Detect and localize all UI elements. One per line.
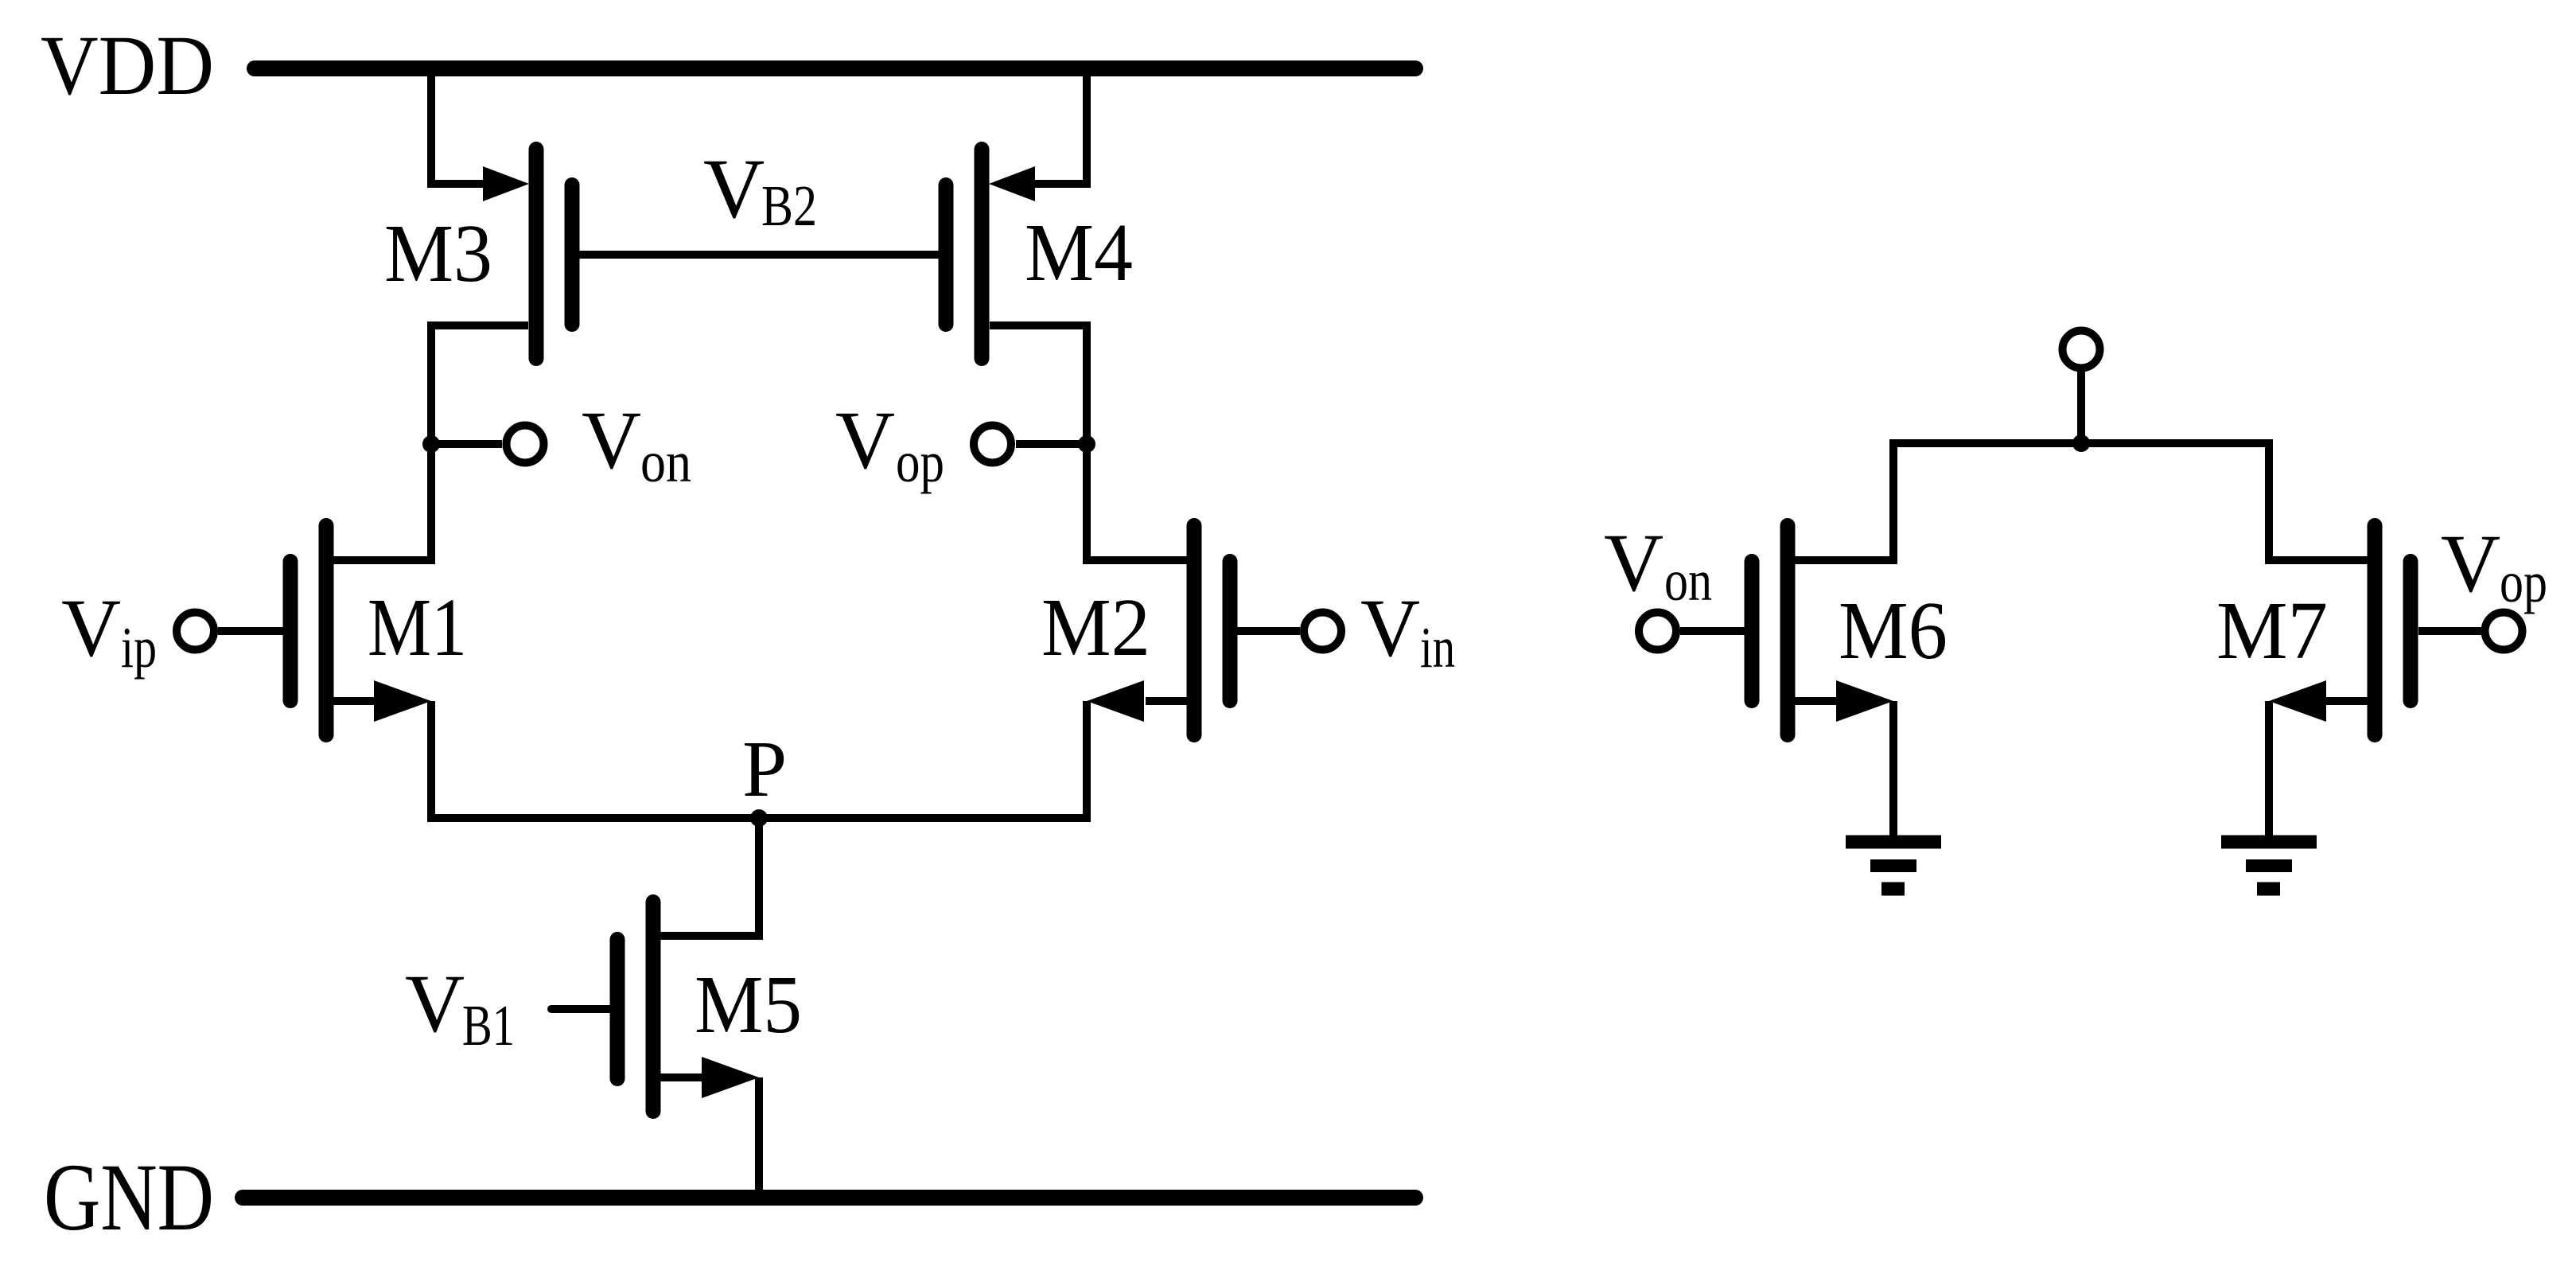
svg-text:V: V (703, 142, 765, 236)
svg-text:V: V (61, 583, 121, 674)
svg-text:B2: B2 (761, 173, 817, 238)
svg-text:V: V (1604, 517, 1664, 609)
svg-text:M3: M3 (384, 208, 492, 299)
svg-text:op: op (896, 430, 944, 494)
svg-text:op: op (2500, 550, 2547, 614)
svg-text:ip: ip (121, 615, 157, 680)
svg-text:V: V (2441, 518, 2500, 610)
svg-text:V: V (835, 395, 895, 486)
svg-text:GND: GND (44, 1144, 214, 1251)
svg-text:B1: B1 (462, 993, 515, 1058)
svg-text:V: V (582, 395, 641, 486)
svg-text:VDD: VDD (41, 19, 214, 113)
svg-text:M5: M5 (695, 959, 802, 1050)
svg-text:M2: M2 (1041, 582, 1150, 673)
svg-text:M4: M4 (1025, 207, 1133, 298)
svg-text:V: V (1360, 583, 1420, 674)
svg-text:M1: M1 (368, 582, 467, 673)
svg-text:in: in (1420, 615, 1455, 680)
svg-text:P: P (742, 724, 787, 813)
svg-text:V: V (405, 958, 465, 1050)
svg-text:on: on (640, 430, 691, 494)
svg-text:on: on (1664, 548, 1712, 613)
svg-text:M7: M7 (2216, 585, 2328, 676)
svg-text:M6: M6 (1839, 585, 1948, 676)
